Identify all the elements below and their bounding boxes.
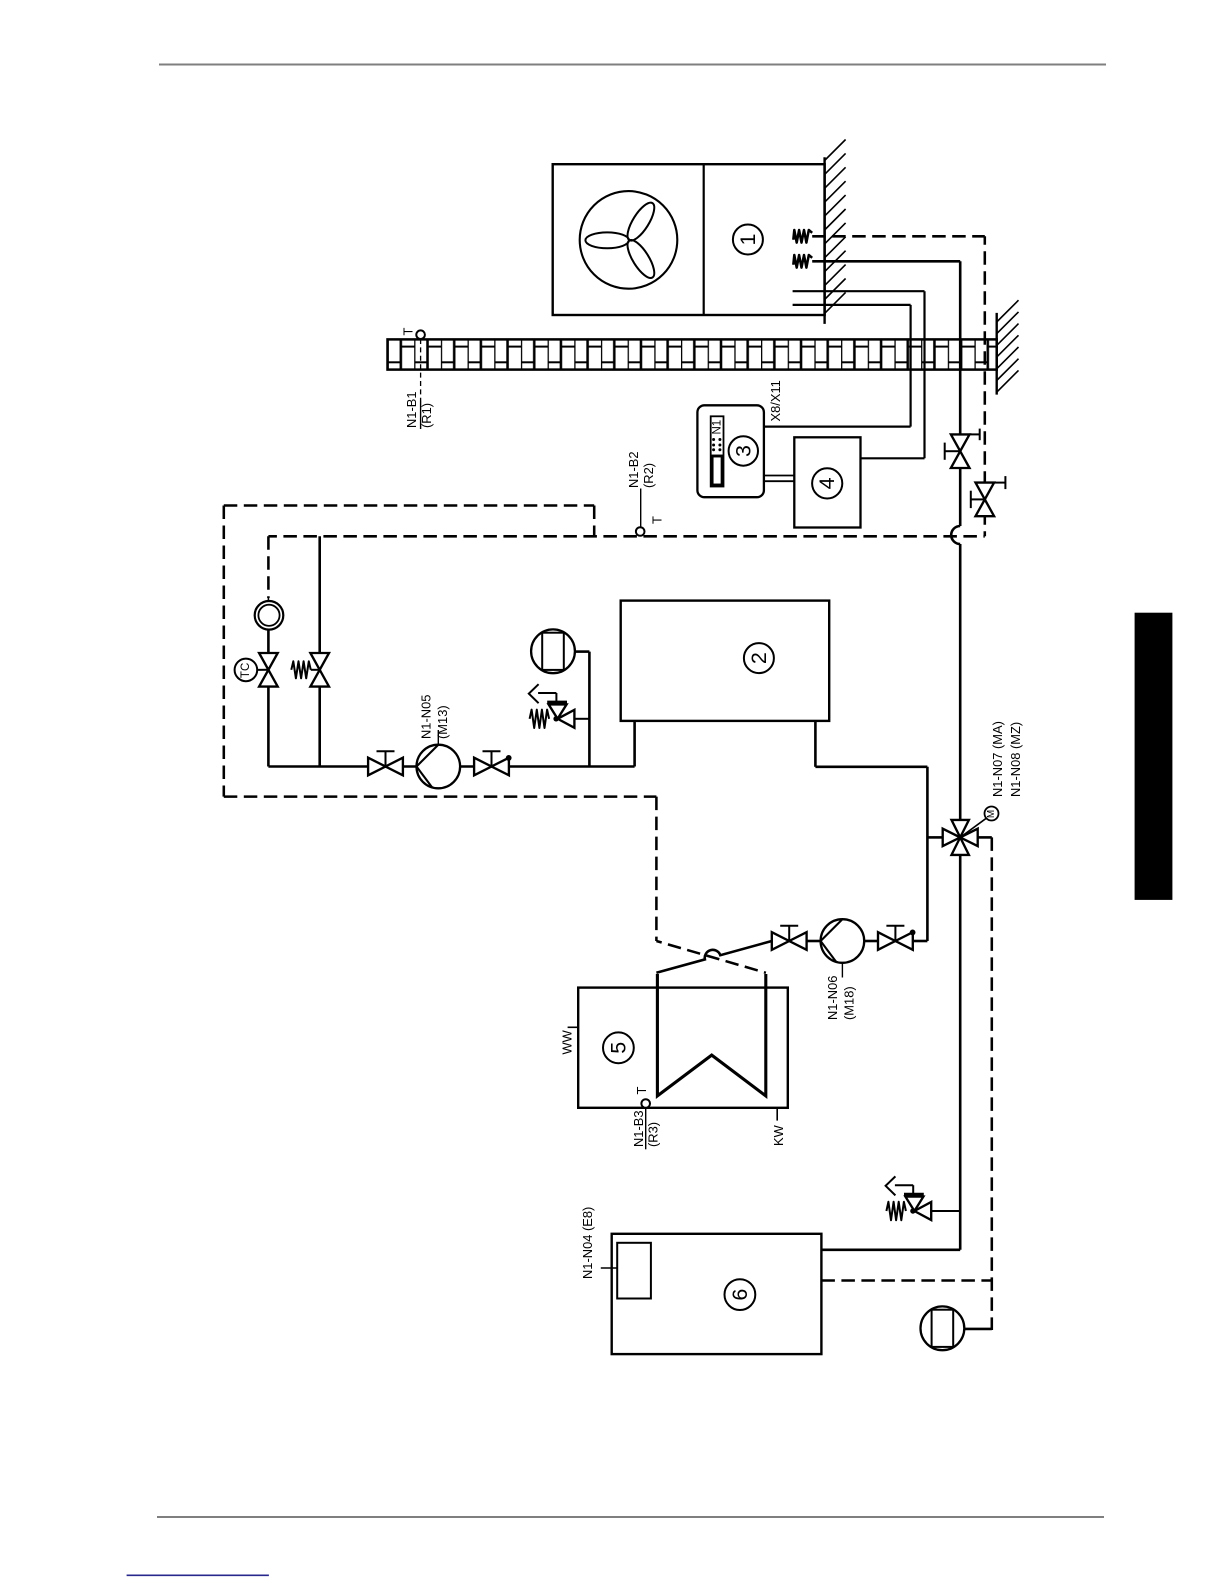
callout circle 1 <box>733 225 763 255</box>
dashed heating-loop bottom edge <box>224 795 657 798</box>
dashed heating-loop left edge <box>223 506 226 797</box>
mixer motor M <box>985 807 999 821</box>
component 2 right stub <box>815 721 927 941</box>
fan circle <box>580 191 678 289</box>
TC branch down <box>267 688 270 767</box>
svg-text:N1-N07 (MA): N1-N07 (MA) <box>990 721 1005 797</box>
circulation pump N1-N06 <box>821 919 865 977</box>
svg-text:(R2): (R2) <box>641 463 656 488</box>
component 2 left stub <box>633 721 636 767</box>
dashed vertical right drop <box>984 236 987 536</box>
callout circle 5 <box>603 1032 634 1063</box>
label N1 in controller <box>712 420 724 435</box>
shut-off valve before pump N1-N05 <box>368 751 403 775</box>
dashed horizontal return line <box>268 535 984 538</box>
svg-text:N1-B3: N1-B3 <box>631 1110 646 1147</box>
controller display bar <box>711 416 724 486</box>
label N1-B1 (R1) <box>404 391 434 428</box>
svg-text:KW: KW <box>771 1124 786 1146</box>
shut-off valve after pump N1-N05 <box>474 751 512 775</box>
electric line to box 4 <box>793 291 925 458</box>
main line below mixer <box>821 855 960 1250</box>
solid pipe heat pump flow to right drop <box>812 261 960 434</box>
controller-box4 double link <box>764 476 794 482</box>
tank 5 outline <box>578 988 788 1108</box>
svg-text:(M13): (M13) <box>435 705 450 739</box>
dashed return buffer <box>821 1279 991 1282</box>
callout circle 3 <box>729 436 758 465</box>
dashed pipe from damper to right drop <box>812 235 985 238</box>
mixer motor link <box>960 818 987 838</box>
electric heater element <box>617 1243 651 1299</box>
expansion vessel buffer circuit <box>921 1306 965 1350</box>
svg-text:X8/X11: X8/X11 <box>768 380 783 421</box>
pressure gauge <box>255 598 284 630</box>
page top rule <box>159 64 1106 66</box>
svg-text:6: 6 <box>728 1289 752 1301</box>
pipe segments pump N1-N06 <box>807 940 879 943</box>
svg-text:T: T <box>649 516 664 524</box>
svg-text:5: 5 <box>606 1042 630 1054</box>
svg-text:T: T <box>634 1087 649 1095</box>
wall at strip right end <box>997 300 1019 394</box>
solid diagonal tank to pump with hop <box>656 941 771 973</box>
temperature sensor N1-B3 <box>641 1099 650 1108</box>
controller unit 3 body <box>697 405 764 497</box>
svg-text:N1-N04 (E8): N1-N04 (E8) <box>580 1207 595 1279</box>
svg-text:M: M <box>986 810 997 818</box>
vessel bottom connector <box>964 1328 992 1331</box>
vibration damper (dashed line) <box>793 230 812 243</box>
heat pump fan/compartment divider <box>703 164 705 315</box>
overflow valve branch up <box>318 536 321 652</box>
svg-text:N1-B1: N1-B1 <box>404 391 419 428</box>
safety valve buffer circuit <box>886 1176 961 1220</box>
circulation pump N1-N05 <box>417 730 461 788</box>
label WW <box>560 1029 575 1054</box>
gauge-TC connector <box>267 630 270 653</box>
svg-text:4: 4 <box>815 477 839 489</box>
mixer left feed <box>927 836 942 839</box>
svg-text:(R1): (R1) <box>419 403 434 428</box>
dashed drop to tank coil <box>655 797 658 941</box>
shut-off valve before pump N1-N06 <box>772 926 807 950</box>
fan blades <box>585 199 659 282</box>
thermostatic valve TC <box>259 653 278 687</box>
temperature sensor N1-B2 <box>636 527 645 536</box>
WW stub <box>568 1026 579 1028</box>
dashed line mixer to buffer/vessel <box>991 837 994 1330</box>
svg-text:1: 1 <box>736 234 760 246</box>
svg-text:WW: WW <box>560 1029 575 1054</box>
component 2 outline <box>621 601 830 721</box>
svg-text:3: 3 <box>731 445 755 457</box>
svg-text:2: 2 <box>747 652 771 664</box>
main flow line with crossing hop <box>951 468 960 820</box>
buffer tank 6 outline <box>612 1234 822 1354</box>
callout circle 4 <box>812 468 842 498</box>
sensor N1-B2 leader <box>640 489 642 527</box>
dashed heating-loop right stub <box>593 506 596 537</box>
mixer right port <box>978 836 992 839</box>
svg-text:N1-N05: N1-N05 <box>418 695 433 739</box>
svg-text:T: T <box>401 328 416 336</box>
svg-text:N1-N08 (MZ): N1-N08 (MZ) <box>1008 722 1023 797</box>
label N1-N04 (E8) <box>580 1207 595 1279</box>
label N1-B3 (R3) <box>631 1110 661 1147</box>
right edge black tab <box>1135 613 1173 900</box>
label T for N1-B3 <box>634 1087 649 1095</box>
shut-off valve after pump N1-N06 <box>878 926 915 950</box>
label KW <box>771 1124 786 1146</box>
footer blue link rule <box>127 1574 269 1576</box>
label N1-N07 (MA) N1-N08 (MZ) <box>990 721 1023 797</box>
safety valve heating circuit <box>529 684 590 728</box>
shut-off valve on dashed drop <box>971 476 1006 516</box>
pipe valve to riser <box>913 940 928 943</box>
sensor N1-B3 leader <box>645 1108 647 1150</box>
svg-text:N1-N06: N1-N06 <box>825 976 840 1020</box>
callout circle 2 <box>744 643 774 673</box>
shut-off valve on solid drop <box>945 429 980 468</box>
sensor N1-B1 leader <box>420 339 422 429</box>
callout circle 6 <box>725 1279 756 1310</box>
svg-text:(R3): (R3) <box>646 1122 661 1147</box>
expansion vessel heating circuit <box>531 629 575 673</box>
svg-text:N1-B2: N1-B2 <box>626 451 641 488</box>
KW stub <box>776 1108 778 1121</box>
tank coil <box>657 974 765 1096</box>
page bottom rule <box>157 1516 1104 1518</box>
heater leader <box>601 1267 617 1269</box>
label T for N1-B1 <box>401 328 416 336</box>
TC actuator circle <box>235 659 269 682</box>
label T for N1-B2 <box>649 516 664 524</box>
svg-text:(M18): (M18) <box>842 986 857 1020</box>
box 4 outline <box>794 437 860 527</box>
wall behind heat pump <box>825 140 846 324</box>
electric line to controller X8/X11 <box>764 305 911 427</box>
dashed stub to gauge <box>267 536 270 598</box>
vessel connector <box>575 652 590 767</box>
controller keypad dots <box>712 438 721 451</box>
heating circuit bottom pipe <box>268 765 634 768</box>
label N1-N05 (M13) <box>418 695 450 739</box>
svg-text:N1: N1 <box>712 420 724 435</box>
heat pump unit 1 outline <box>553 164 825 315</box>
temperature sensor N1-B1 <box>416 330 425 339</box>
controller screen <box>712 456 722 485</box>
label N1-N06 (M18) <box>825 976 857 1020</box>
label X8/X11 <box>768 380 783 421</box>
overflow valve <box>291 653 329 687</box>
air duct brick strip <box>388 339 997 369</box>
label N1-B2 (R2) <box>626 451 656 488</box>
vibration damper (solid line) <box>793 255 812 268</box>
overflow branch down <box>318 688 321 767</box>
4-way mixing valve N1-N07/N1-N08 <box>943 820 978 855</box>
dashed diagonal to tank coil <box>656 941 766 973</box>
dashed heating-loop top edge <box>224 504 594 507</box>
svg-text:TC: TC <box>240 663 252 678</box>
